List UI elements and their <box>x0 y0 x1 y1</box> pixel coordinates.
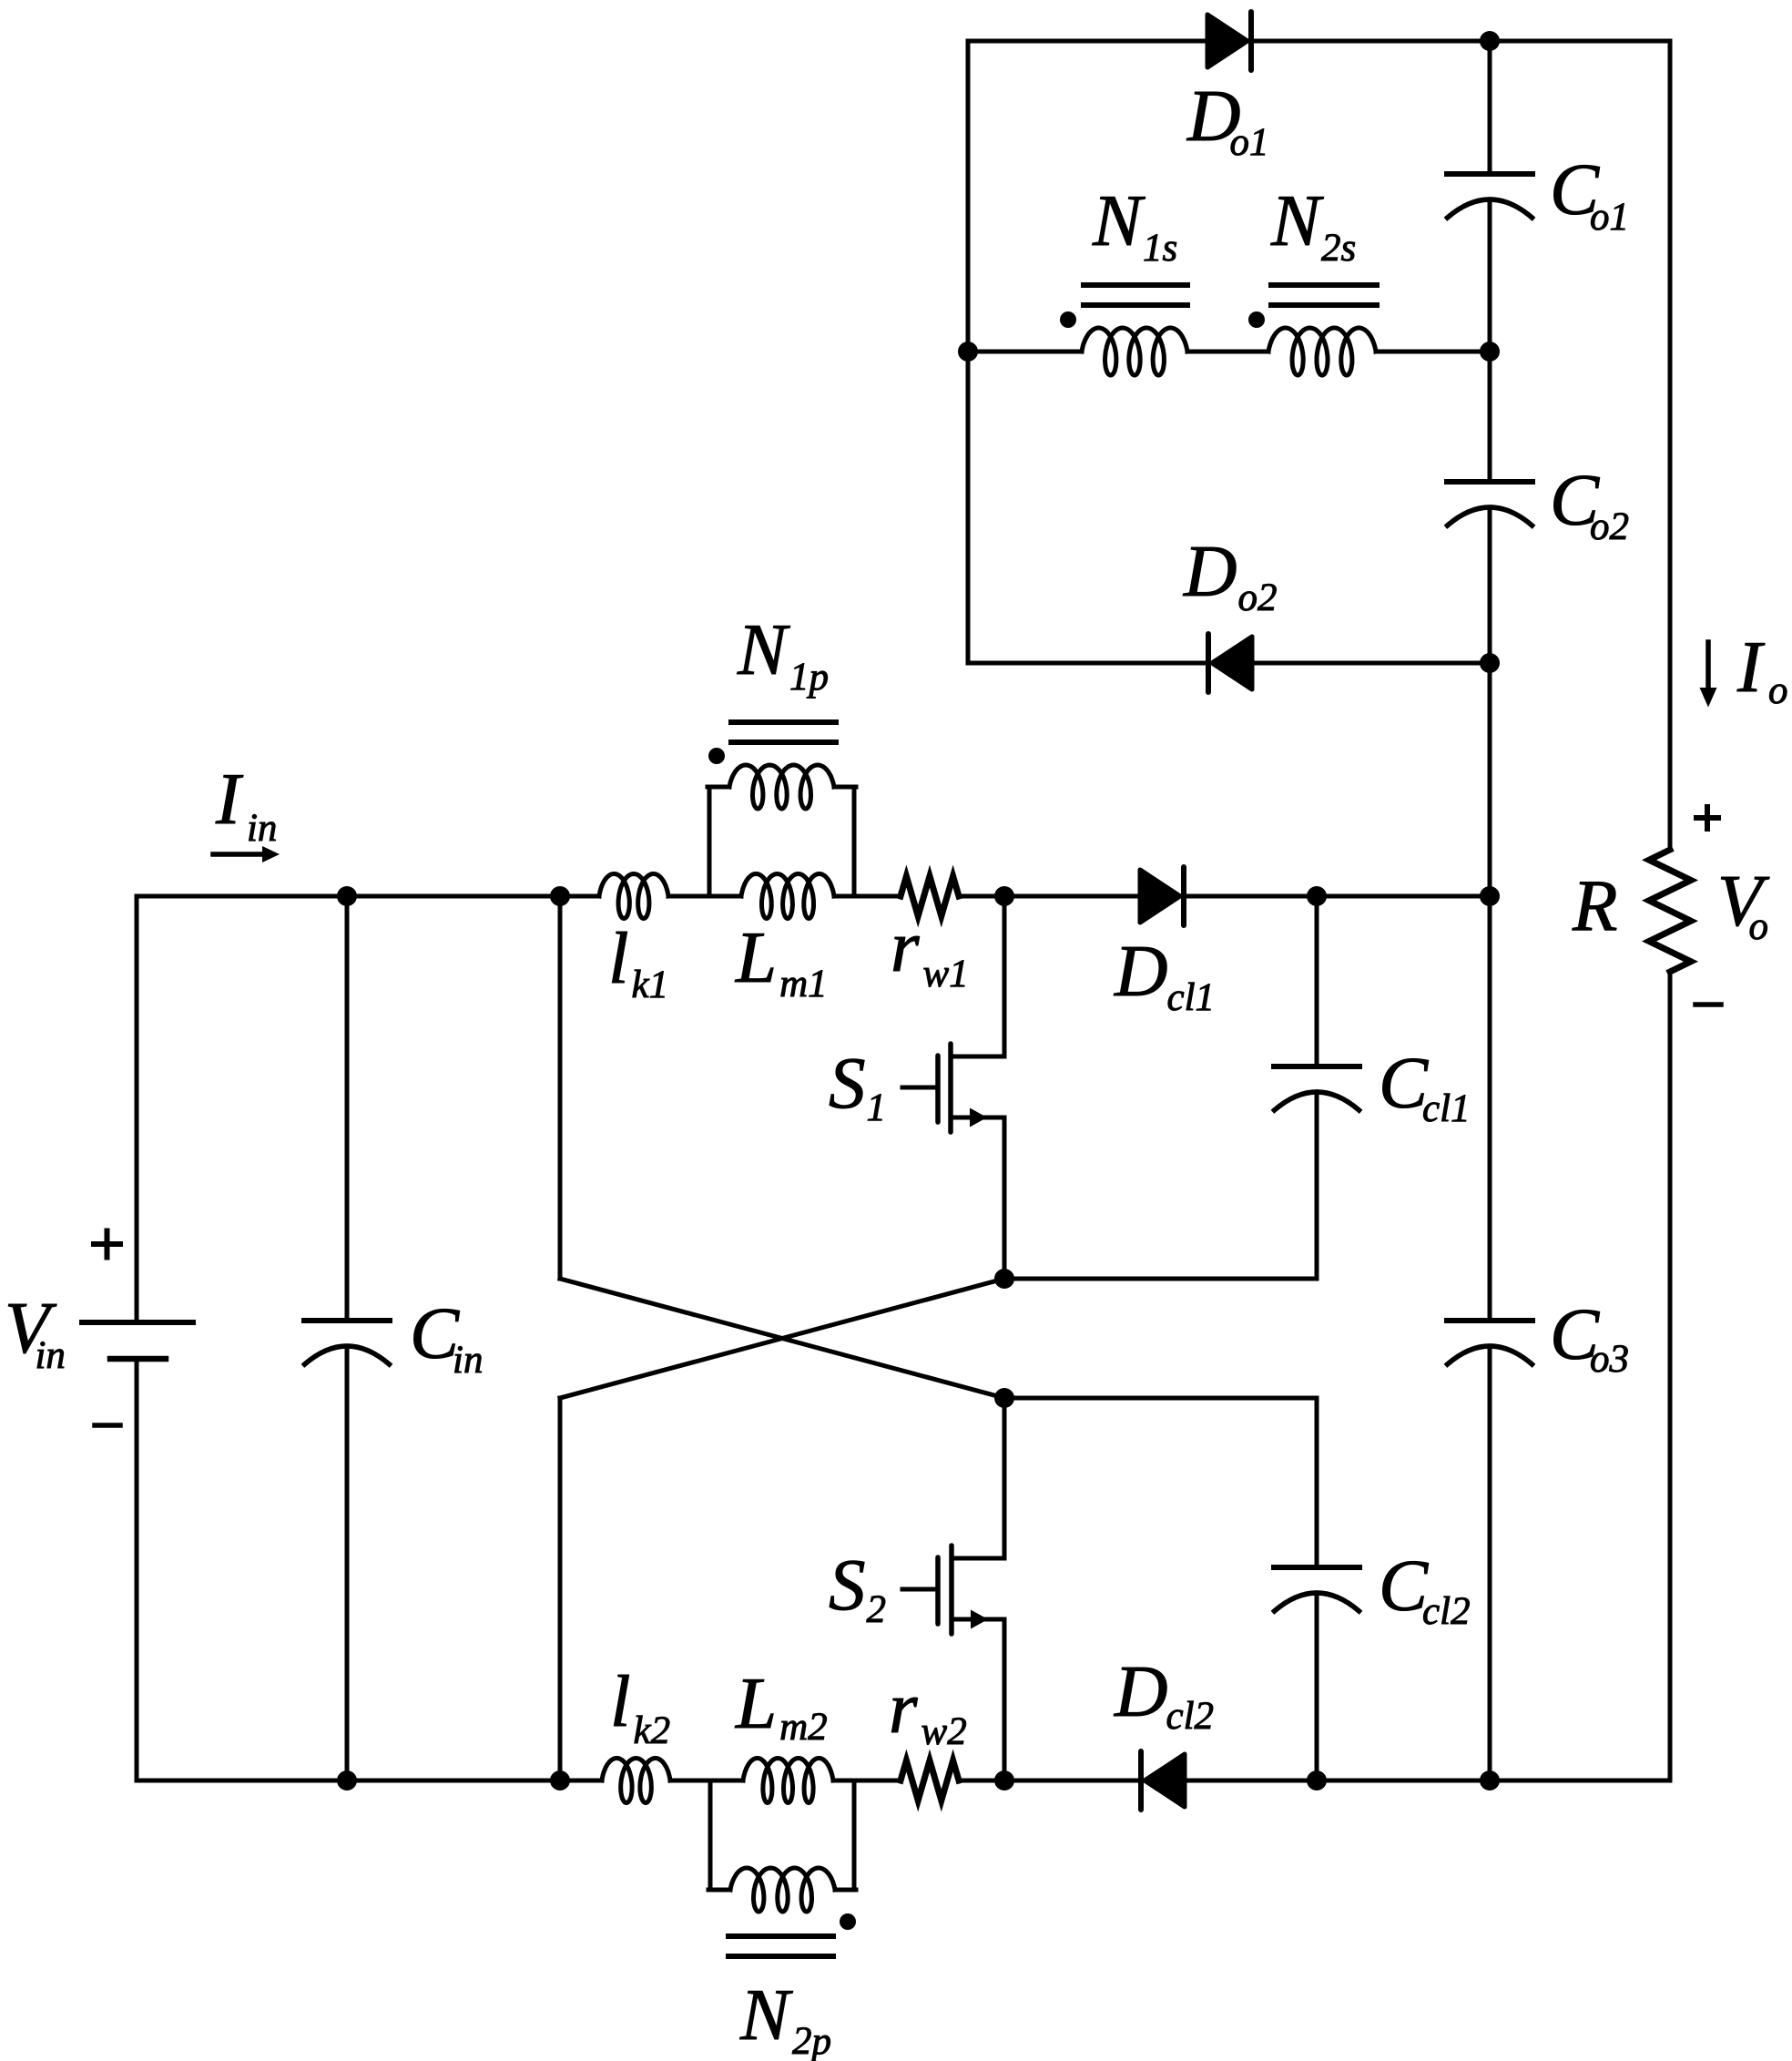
label Vin minus <box>95 1423 120 1428</box>
wire N2p branch right vertical <box>852 1780 857 1890</box>
wire Ccl1 bottom rail <box>1004 1277 1317 1281</box>
wire cross diag B-to-A <box>560 1279 1004 1398</box>
wire Cin branch bottom <box>345 1349 350 1780</box>
wire S2 source vertical <box>1003 1619 1007 1780</box>
node Cin top junction <box>337 886 357 906</box>
polarity dot N1s <box>1060 311 1076 328</box>
wire output-cap column seg1 <box>1488 41 1492 173</box>
wire main rail b <box>834 894 901 899</box>
core N1p bar1 <box>731 719 836 725</box>
inductor Lm2 <box>743 1759 833 1803</box>
arrow Io <box>1705 642 1711 689</box>
wire main rail c <box>959 894 1490 899</box>
node A main junction <box>550 886 570 906</box>
label Vo plus <box>1696 807 1718 829</box>
inductor N1p winding <box>729 765 834 809</box>
wire N2p branch left vertical <box>708 1780 713 1890</box>
battery Vin plate short <box>110 1356 166 1362</box>
wire Vin branch bottom <box>135 1361 139 1780</box>
resistor R <box>1649 850 1691 972</box>
wire column A vertical <box>558 896 563 1279</box>
wire N1p stub right <box>834 785 856 790</box>
wire secondary-loop left vertical <box>966 41 971 663</box>
diode Do1 <box>1207 15 1247 67</box>
inductor lk2 <box>602 1759 670 1803</box>
wire S1 source vertical <box>1003 1117 1007 1279</box>
resistor rw2 <box>901 1760 959 1801</box>
inductor N2s winding <box>1268 328 1376 375</box>
wire S1 drain vertical <box>1003 896 1007 1056</box>
node B bottom junction <box>994 1770 1014 1791</box>
node B main junction <box>994 886 1014 906</box>
core N1p bar2 <box>731 740 836 745</box>
transistor S1 <box>951 1055 1004 1059</box>
wire Ccl2 top rail <box>1004 1396 1317 1401</box>
diode Do2 <box>1206 634 1211 692</box>
wire bottom rail a <box>670 1779 743 1783</box>
wire N1p branch right vertical <box>852 787 857 896</box>
wire Cin branch top <box>345 896 350 1320</box>
wire bottom rail c <box>959 1779 1670 1783</box>
svg-text:Vo: Vo <box>1717 860 1770 948</box>
diode Dcl1 <box>1140 870 1180 923</box>
wire secondary mid center <box>1187 350 1268 354</box>
wire output-cap column seg4 <box>1488 1349 1492 1780</box>
wire S2 drain vertical <box>1003 1398 1007 1558</box>
node Ccl1 top junction <box>1307 886 1327 906</box>
node X lower junction <box>994 1388 1014 1408</box>
capacitor Co1 <box>1447 171 1532 177</box>
wire top rail <box>968 39 1670 44</box>
capacitor Ccl1 <box>1274 1064 1359 1069</box>
wire N1p stub left <box>708 785 729 790</box>
node output-cap bottom junction <box>1480 1770 1500 1791</box>
wire Ccl2 branch bottom <box>1315 1596 1319 1780</box>
node main-rail output junction <box>1480 886 1500 906</box>
diode Dcl2 <box>1138 1751 1144 1810</box>
capacitor Ccl2 <box>1274 1565 1359 1570</box>
inductor N1s winding <box>1082 328 1187 375</box>
node Cin bottom junction <box>337 1770 357 1791</box>
node Ccl2 bottom junction <box>1307 1770 1327 1791</box>
wire column A lower vertical <box>558 1398 563 1780</box>
wire main rail left <box>137 894 599 899</box>
label Vo minus <box>1695 1002 1721 1007</box>
capacitor Co3 <box>1447 1318 1532 1323</box>
inductor Lm1 <box>741 874 834 919</box>
core N2p bar1 <box>728 1933 833 1939</box>
core N2s bar2 <box>1271 302 1377 308</box>
capacitor Co2 <box>1447 479 1532 485</box>
node A bottom junction <box>550 1770 570 1791</box>
inductor lk1 <box>599 874 668 919</box>
wire Do2 rail <box>968 661 1490 666</box>
wire main rail a <box>668 894 741 899</box>
wire N1p branch left vertical <box>708 787 712 896</box>
polarity dot N2s <box>1248 311 1265 328</box>
wire Ccl1 branch top <box>1315 896 1319 1066</box>
core N1s bar1 <box>1084 282 1187 288</box>
core N2p bar2 <box>728 1954 833 1959</box>
resistor rw1 <box>901 876 959 916</box>
label Vin plus <box>94 1231 120 1258</box>
wire bottom rail left <box>137 1779 602 1783</box>
wire load column top <box>1668 41 1673 850</box>
core N1s bar2 <box>1084 302 1187 308</box>
core N2s bar1 <box>1271 282 1377 288</box>
node secondary mid left junction <box>958 342 978 362</box>
wire load column bottom <box>1668 972 1673 1780</box>
node X upper junction <box>994 1269 1014 1289</box>
svg-text:R: R <box>1572 864 1617 946</box>
polarity dot N1p <box>708 748 725 764</box>
wire output-cap column seg3 <box>1488 510 1492 1320</box>
wire Ccl2 branch top <box>1315 1398 1319 1566</box>
wire cross diag A-to-B <box>560 1279 1004 1398</box>
node secondary mid right junction <box>1480 342 1500 362</box>
wire Ccl1 branch bottom <box>1315 1095 1319 1279</box>
node Do2 right junction <box>1480 653 1500 673</box>
polarity dot N2p <box>840 1913 856 1930</box>
transistor S2 <box>952 1556 1004 1561</box>
wire bottom rail b <box>833 1779 901 1783</box>
arrow Iin <box>213 852 262 857</box>
wire N2p stub right <box>835 1888 856 1893</box>
wire secondary mid right <box>1376 350 1490 354</box>
inductor N2p winding <box>730 1868 835 1912</box>
wire N2p stub left <box>708 1888 730 1893</box>
capacitor Cin <box>304 1318 390 1323</box>
wire output-cap column seg2 <box>1488 202 1492 481</box>
wire Vin branch top <box>135 896 139 1321</box>
node top-right junction <box>1480 31 1500 51</box>
wire secondary mid left <box>968 350 1082 354</box>
battery Vin plate long <box>82 1320 193 1325</box>
